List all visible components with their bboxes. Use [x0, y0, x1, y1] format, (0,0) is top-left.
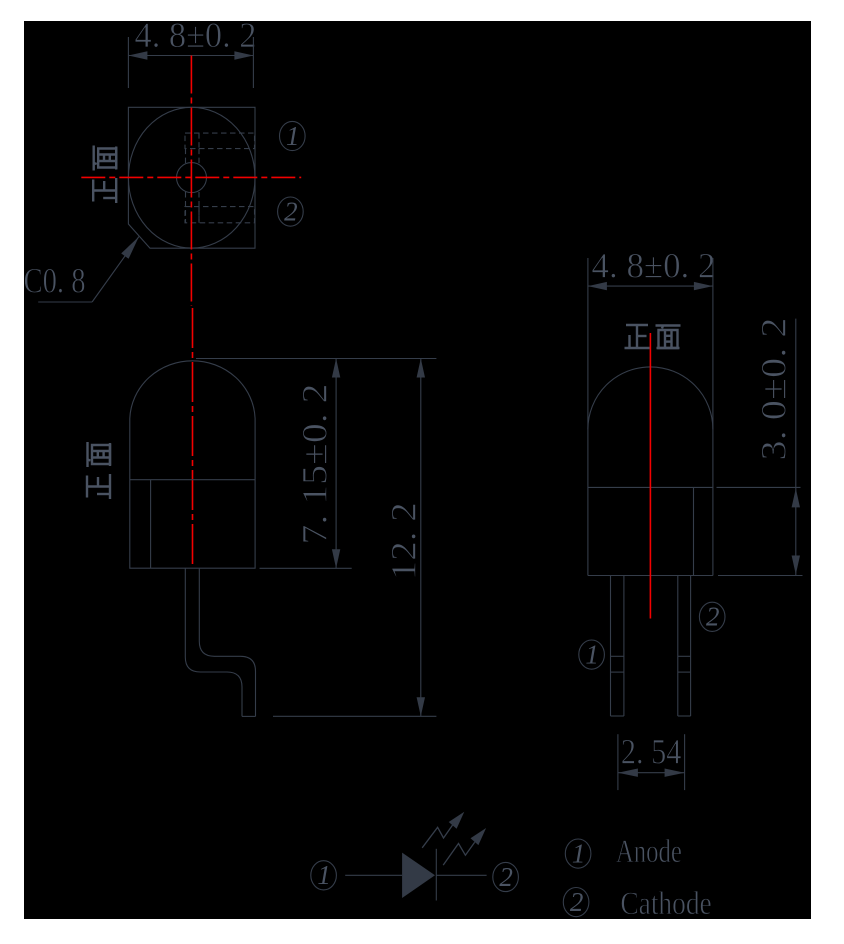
svg-text:12. 2: 12. 2	[384, 502, 424, 580]
svg-text:3. 0±0. 2: 3. 0±0. 2	[754, 318, 794, 461]
svg-text:Anode: Anode	[616, 834, 682, 870]
svg-text:7. 15±0. 2: 7. 15±0. 2	[295, 384, 335, 545]
svg-text:2. 54: 2. 54	[621, 731, 682, 771]
svg-text:4. 8±0. 2: 4. 8±0. 2	[135, 15, 257, 55]
svg-text:4. 8±0. 2: 4. 8±0. 2	[592, 246, 716, 286]
svg-text:C0. 8: C0. 8	[24, 261, 86, 301]
svg-text:Cathode: Cathode	[620, 886, 711, 922]
